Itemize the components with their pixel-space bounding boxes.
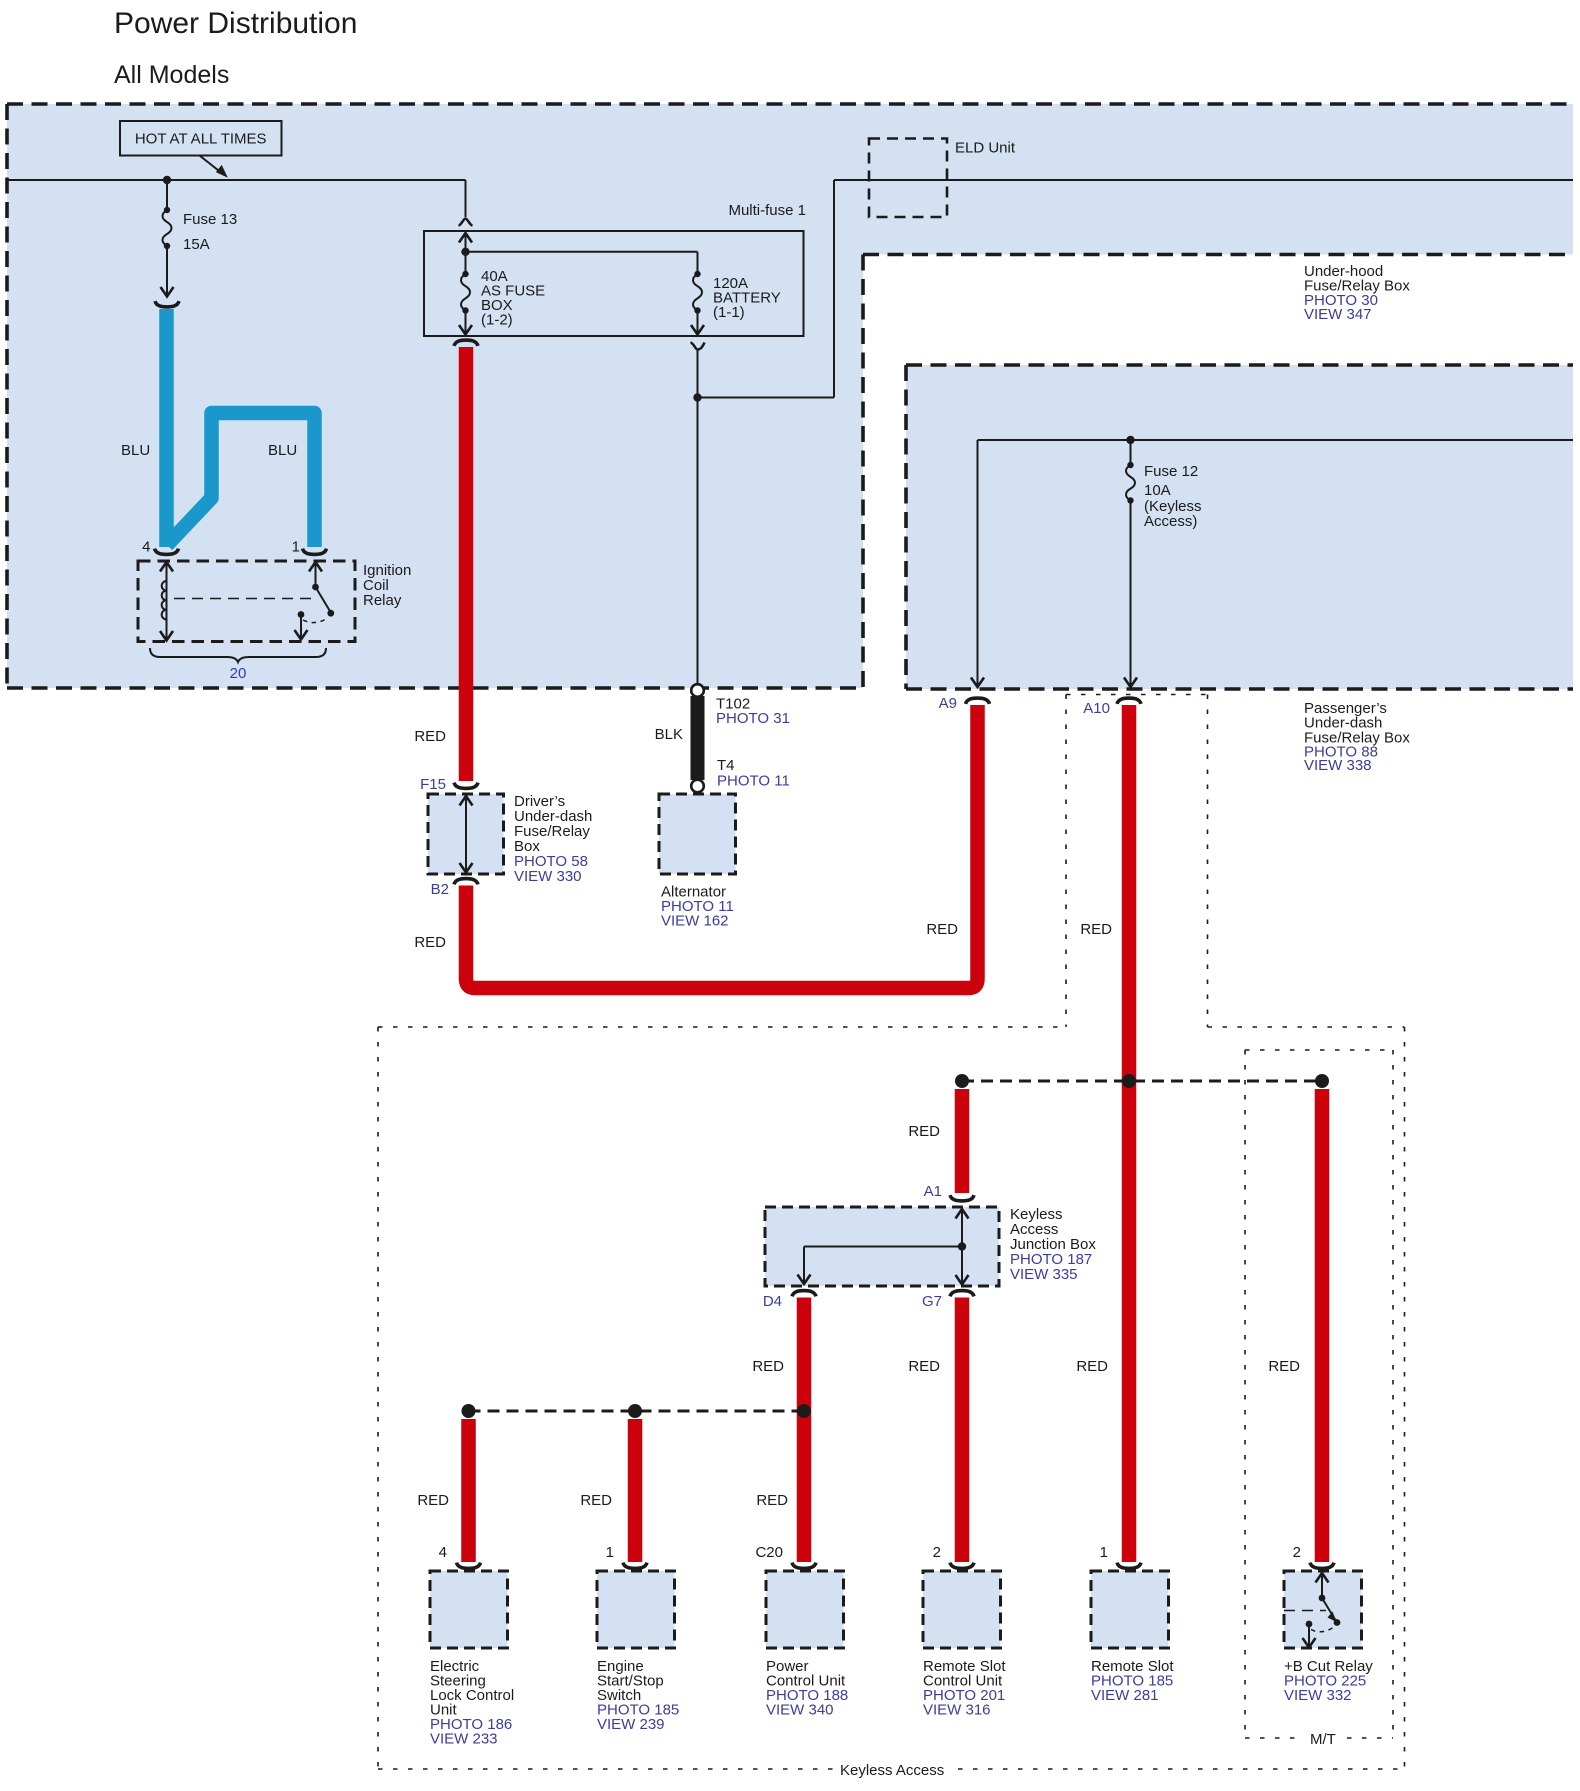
driver's under-dash fuse/relay box <box>428 794 504 874</box>
svg-text:RED: RED <box>580 1492 612 1509</box>
wire: main bus right segment through ELD <box>834 179 1573 181</box>
svg-text:VIEW 162: VIEW 162 <box>661 913 729 930</box>
+B cut relay switch symbol <box>1316 1573 1329 1583</box>
connector cup below multi-fuse (AS output) <box>454 340 478 346</box>
svg-text:ELD Unit: ELD Unit <box>955 140 1016 157</box>
power control unit box <box>766 1571 844 1648</box>
wire RED: stub to ESL <box>461 1419 476 1562</box>
electric steering lock control unit box <box>430 1571 508 1648</box>
wire RED: stub to engine start/stop <box>628 1419 643 1562</box>
relay: ignition coil relay box <box>138 561 355 642</box>
svg-text:M/T: M/T <box>1310 1731 1336 1748</box>
svg-text:Multi-fuse 1: Multi-fuse 1 <box>728 202 806 219</box>
wire: bus drop to multi-fuse <box>465 180 467 217</box>
svg-text:1: 1 <box>606 1544 614 1561</box>
svg-text:RED: RED <box>1080 921 1112 938</box>
wire RED: stub down to A1 <box>955 1089 970 1193</box>
keyless access dashed region border <box>377 1027 379 1769</box>
svg-text:BLU: BLU <box>268 442 297 459</box>
svg-text:RED: RED <box>908 1123 940 1140</box>
svg-text:VIEW 330: VIEW 330 <box>514 868 582 885</box>
svg-text:2: 2 <box>1293 1544 1301 1561</box>
svg-text:Fuse 13: Fuse 13 <box>183 211 237 228</box>
svg-text:C20: C20 <box>755 1544 783 1561</box>
pointer arrow from label to bus <box>200 156 223 174</box>
svg-text:RED: RED <box>414 934 446 951</box>
svg-text:B2: B2 <box>431 881 449 898</box>
svg-text:15A: 15A <box>183 236 210 253</box>
svg-text:20: 20 <box>230 665 247 682</box>
svg-text:PHOTO 11: PHOTO 11 <box>717 773 790 790</box>
fuse 13 15A <box>166 180 168 210</box>
svg-text:RED: RED <box>1268 1358 1300 1375</box>
terminal T102 <box>691 684 704 697</box>
svg-text:Keyless Access: Keyless Access <box>840 1762 944 1779</box>
svg-text:VIEW 340: VIEW 340 <box>766 1702 834 1719</box>
svg-text:4: 4 <box>142 539 150 556</box>
svg-text:VIEW 335: VIEW 335 <box>1010 1266 1078 1283</box>
power region dashed border <box>7 102 1573 106</box>
svg-text:VIEW 281: VIEW 281 <box>1091 1687 1159 1704</box>
svg-text:RED: RED <box>756 1492 788 1509</box>
svg-text:A1: A1 <box>924 1183 942 1200</box>
wire: main bus left segment <box>7 179 466 181</box>
power region (hot at all times) fill <box>7 104 1573 688</box>
svg-text:10A: 10A <box>1144 482 1171 499</box>
svg-text:(1-1): (1-1) <box>713 304 745 321</box>
svg-text:2: 2 <box>933 1544 941 1561</box>
svg-text:RED: RED <box>926 921 958 938</box>
node: junction to ELD riser <box>693 393 701 401</box>
svg-text:1: 1 <box>1100 1544 1108 1561</box>
svg-text:VIEW 338: VIEW 338 <box>1304 757 1372 774</box>
keyless access junction box <box>765 1207 999 1286</box>
HOT AT ALL TIMES label box <box>120 121 282 156</box>
fuse 120A BATTERY (1-1) <box>697 252 699 274</box>
wire inside passenger box <box>978 439 1574 441</box>
svg-text:Power Distribution: Power Distribution <box>114 7 357 40</box>
alternator box <box>659 794 736 874</box>
svg-text:RED: RED <box>414 728 446 745</box>
wire RED: B2 to A9 <box>466 705 978 988</box>
terminal T4 <box>691 780 704 793</box>
svg-text:F15: F15 <box>420 776 446 793</box>
wire RED: A10 down to remote slot <box>1122 705 1137 1562</box>
wire from battery fuse down to T102 <box>697 350 699 684</box>
svg-text:VIEW 316: VIEW 316 <box>923 1702 991 1719</box>
svg-text:A10: A10 <box>1083 700 1110 717</box>
fuse 40A AS FUSE BOX (1-2) <box>459 233 472 243</box>
svg-text:(1-2): (1-2) <box>481 312 513 329</box>
dashed wire row (ESL / switch / PCU) <box>469 1410 805 1413</box>
remote slot box <box>1091 1571 1169 1648</box>
svg-text:VIEW 332: VIEW 332 <box>1284 1687 1352 1704</box>
svg-text:T4: T4 <box>717 757 735 774</box>
svg-text:A9: A9 <box>939 695 957 712</box>
svg-text:RED: RED <box>1076 1358 1108 1375</box>
svg-text:BLK: BLK <box>655 726 683 743</box>
svg-text:HOT AT ALL TIMES: HOT AT ALL TIMES <box>135 131 267 148</box>
wire RED: G7 down to remote slot control unit <box>955 1298 970 1563</box>
svg-text:VIEW 233: VIEW 233 <box>430 1731 498 1748</box>
remote slot control unit box <box>923 1571 1001 1648</box>
svg-text:Fuse 12: Fuse 12 <box>1144 463 1198 480</box>
svg-text:VIEW 347: VIEW 347 <box>1304 306 1372 323</box>
svg-text:RED: RED <box>908 1358 940 1375</box>
svg-text:PHOTO 31: PHOTO 31 <box>716 710 790 727</box>
wire RED: D4 down to C20 <box>797 1298 812 1563</box>
connector cup above BLU wire <box>155 301 179 307</box>
wire BLU (left) <box>159 309 174 547</box>
svg-text:Relay: Relay <box>363 592 402 609</box>
relay actuation dashed link <box>174 598 318 600</box>
wire: riser from multi-fuse output to bus <box>833 180 835 398</box>
node at fuse 12 <box>1126 436 1134 444</box>
wire RED: stub down to +B cut relay <box>1315 1089 1330 1562</box>
svg-text:4: 4 <box>439 1544 447 1561</box>
passenger under-dash fuse/relay box region <box>906 365 1573 689</box>
wire RED: multi-fuse to F15 <box>459 347 474 781</box>
relay coil <box>160 562 173 572</box>
svg-text:BLU: BLU <box>121 442 150 459</box>
node dots <box>955 1074 969 1088</box>
svg-text:1: 1 <box>292 539 300 556</box>
node: bus junction at fuse 13 <box>163 176 171 184</box>
underbrace 20 <box>150 648 326 662</box>
wire BLK <box>691 696 705 780</box>
engine start/stop switch box <box>597 1571 675 1648</box>
dashed wire row (A1 / A10 / +B) <box>962 1080 1322 1083</box>
svg-text:RED: RED <box>752 1358 784 1375</box>
svg-text:G7: G7 <box>922 1293 942 1310</box>
svg-text:Access): Access) <box>1144 513 1197 530</box>
+B cut relay box <box>1284 1571 1362 1648</box>
fuse 12 10A keyless access <box>1130 440 1132 465</box>
svg-text:D4: D4 <box>763 1293 782 1310</box>
svg-text:VIEW 239: VIEW 239 <box>597 1716 665 1733</box>
svg-text:All Models: All Models <box>114 61 229 89</box>
wire BLU (right loop) <box>167 413 315 547</box>
M/T dashed region border <box>1244 1050 1246 1738</box>
svg-text:RED: RED <box>417 1492 449 1509</box>
ELD Unit box <box>869 139 947 218</box>
relay switch <box>309 562 322 572</box>
